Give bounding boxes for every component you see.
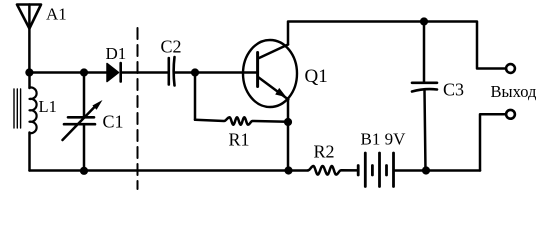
boundary dashed line [137,28,139,189]
node junction C1 branch [80,68,88,76]
wire main horizontal rail y=72.5 [29,71,107,74]
node junction emitter/bottom [284,166,292,174]
svg-text:B1 9V: B1 9V [361,130,407,149]
svg-text:Q1: Q1 [305,66,328,87]
node junction C3 top [420,17,428,25]
resistor R2 [308,166,358,175]
variable capacitor C1 [63,73,103,171]
wire D1 to C2 [122,71,169,74]
terminal lower output [506,110,515,119]
wire collector up [288,22,506,69]
transistor Q1 [243,40,297,107]
svg-text:A1: A1 [46,5,67,24]
node junction antenna/L1 [25,68,33,76]
battery B1 [358,153,393,187]
bottom rail [30,169,309,172]
svg-text:D1: D1 [106,44,127,63]
wire C2 to base [175,71,257,74]
wire lower output [480,114,506,170]
node junction emitter/R1 [284,118,292,126]
capacitor C3 [412,22,437,171]
svg-text:C3: C3 [443,80,464,100]
core of L1 [14,89,21,128]
node junction C1/bottom [80,167,88,175]
node junction C3/bottom [422,166,430,174]
wire battery to C3 node [395,169,481,172]
inductor L1 [30,73,37,171]
svg-text:R2: R2 [314,142,335,162]
diode D1 [107,63,121,82]
wire emitter down [287,99,290,171]
antenna A1 [17,5,41,73]
svg-text:R1: R1 [229,130,250,150]
svg-text:C1: C1 [103,112,124,132]
svg-text:L1: L1 [39,97,57,116]
resistor R1 [195,73,288,125]
terminal upper output [506,64,515,73]
svg-text:C2: C2 [161,37,182,57]
capacitor C2 [169,57,175,86]
node junction R1 branch [191,68,199,76]
svg-text:Выход: Выход [491,82,537,101]
